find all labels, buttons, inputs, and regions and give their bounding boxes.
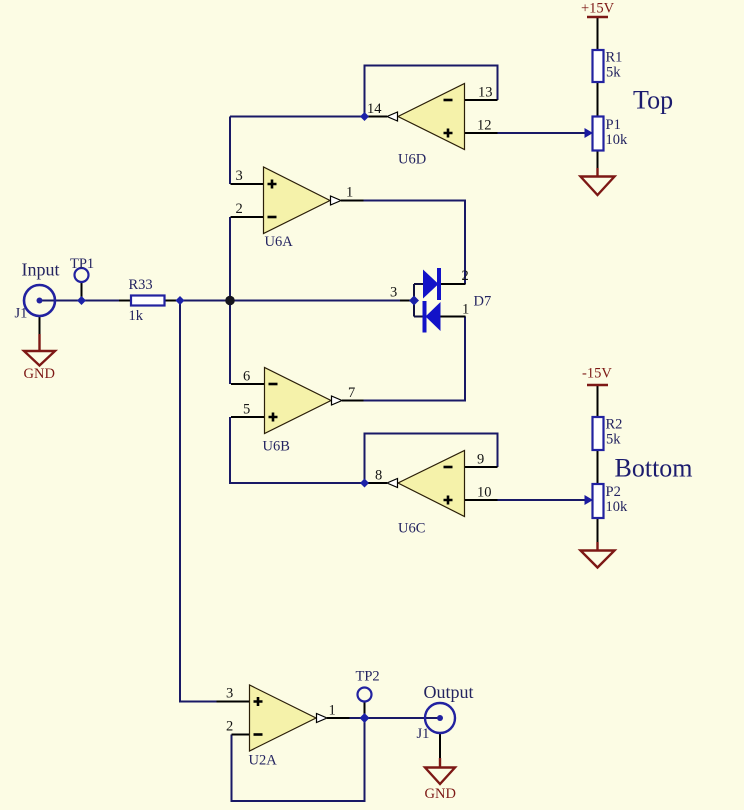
svg-text:10k: 10k	[606, 132, 629, 148]
svg-text:5: 5	[243, 402, 250, 418]
svg-text:R33: R33	[129, 277, 153, 293]
svg-text:1: 1	[346, 185, 353, 201]
svg-text:Output: Output	[424, 682, 474, 702]
svg-text:7: 7	[348, 385, 355, 401]
svg-text:1: 1	[462, 302, 469, 318]
svg-text:2: 2	[226, 719, 233, 735]
svg-text:U6B: U6B	[263, 439, 290, 455]
svg-text:8: 8	[375, 468, 382, 484]
svg-text:P2: P2	[606, 484, 621, 500]
svg-text:TP1: TP1	[70, 256, 94, 272]
svg-text:U6D: U6D	[398, 152, 426, 168]
svg-text:Bottom: Bottom	[615, 454, 693, 483]
svg-text:5k: 5k	[606, 432, 621, 448]
svg-text:Input: Input	[22, 260, 60, 280]
svg-text:2: 2	[236, 201, 243, 217]
svg-text:1k: 1k	[129, 308, 144, 324]
svg-text:R2: R2	[606, 417, 623, 433]
svg-text:+15V: +15V	[581, 1, 615, 17]
svg-text:2: 2	[462, 268, 469, 284]
svg-text:TP2: TP2	[356, 669, 380, 685]
svg-text:3: 3	[226, 686, 233, 702]
svg-text:5k: 5k	[606, 65, 621, 81]
svg-text:10k: 10k	[606, 499, 629, 515]
svg-text:GND: GND	[425, 786, 456, 802]
svg-text:1: 1	[329, 703, 336, 719]
svg-text:3: 3	[236, 168, 243, 184]
svg-text:14: 14	[367, 101, 382, 117]
svg-text:J1: J1	[417, 726, 430, 742]
svg-text:U2A: U2A	[249, 753, 278, 769]
svg-text:D7: D7	[474, 294, 492, 310]
svg-text:J1: J1	[15, 306, 28, 322]
svg-text:Top: Top	[633, 86, 673, 115]
svg-text:13: 13	[478, 85, 493, 101]
svg-text:U6A: U6A	[265, 234, 294, 250]
svg-text:R1: R1	[606, 50, 623, 66]
svg-text:U6C: U6C	[398, 521, 425, 537]
svg-text:-15V: -15V	[582, 366, 612, 382]
svg-text:P1: P1	[606, 117, 621, 133]
svg-text:10: 10	[477, 485, 492, 501]
svg-text:9: 9	[477, 452, 484, 468]
svg-text:3: 3	[390, 285, 397, 301]
svg-text:12: 12	[477, 118, 492, 134]
svg-text:GND: GND	[24, 366, 55, 382]
svg-text:6: 6	[243, 369, 250, 385]
